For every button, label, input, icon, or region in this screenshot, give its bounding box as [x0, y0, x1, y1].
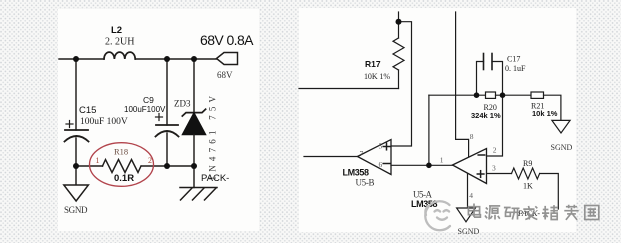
U5-B plus sign pin5 [383, 143, 390, 150]
wire: U5-B pin6 to U5-A output [391, 164, 453, 166]
svg-text:C9: C9 [143, 95, 154, 105]
watermark char 电 [468, 204, 480, 218]
svg-text:68V: 68V [217, 70, 233, 80]
junction node: bottom net at C9 [164, 163, 170, 169]
svg-text:1N4761 75V: 1N4761 75V [208, 92, 218, 181]
right schematic white panel [299, 8, 576, 232]
svg-text:4: 4 [469, 191, 473, 200]
ground SGND (right top) [552, 120, 570, 133]
watermark char 英 [564, 205, 578, 220]
resistor R18 [103, 160, 142, 173]
wire: C15 to ground node [75, 138, 77, 185]
wire: ZD3 branch vertical [193, 59, 195, 113]
junction node: rail at ZD3 [191, 56, 197, 62]
watermark char 研 [504, 208, 520, 220]
ground SGND (below U5-A) [457, 208, 476, 222]
svg-text:C15: C15 [79, 105, 96, 116]
svg-text:2: 2 [148, 156, 152, 165]
ground SGND (left) [64, 185, 89, 201]
U5-A plus sign pin3 [477, 171, 484, 178]
wire: U5-A pin4 to ground [467, 174, 469, 208]
svg-text:R18: R18 [114, 147, 128, 157]
svg-text:SGND: SGND [458, 227, 480, 236]
svg-text:2: 2 [493, 146, 497, 155]
U5-A minus sign pin2 [478, 154, 485, 156]
svg-text:0. 1uF: 0. 1uF [505, 64, 526, 73]
op-amp U5-B [358, 140, 392, 175]
wire: bottom net right segment [142, 165, 195, 167]
wire: ZD3 to PACK- ground [193, 135, 195, 188]
svg-text:C17: C17 [507, 55, 520, 64]
resistor R17 [398, 22, 400, 38]
junction node: rail at C15 [73, 56, 79, 62]
svg-text:ZD3: ZD3 [174, 99, 191, 109]
wire: C9 to bottom net [166, 133, 168, 166]
svg-text:R9: R9 [523, 159, 532, 168]
wire: R20 net horizontal [429, 94, 486, 96]
svg-text:1: 1 [96, 156, 100, 165]
left schematic white panel [58, 9, 259, 231]
svg-text:SGND: SGND [551, 143, 573, 152]
svg-text:SGND: SGND [64, 205, 88, 215]
wire: U5-B output [304, 156, 358, 158]
inductor L2 [104, 52, 135, 59]
zener diode ZD3 [182, 109, 205, 116]
chassis ground PACK- [180, 188, 217, 201]
watermark char 精 [542, 205, 558, 219]
U5-B minus sign pin6 [383, 163, 390, 165]
svg-text:1K: 1K [523, 182, 533, 191]
wire: U5-A pin3 to R9 [487, 173, 512, 175]
svg-text:PACK-: PACK- [201, 173, 229, 184]
junction node: C17 right [500, 92, 506, 98]
svg-text:5: 5 [379, 142, 383, 151]
wire: R21 to SGND [544, 95, 561, 120]
svg-text:10k 1%: 10k 1% [532, 109, 558, 118]
resistor R9 [512, 168, 540, 179]
svg-text:1: 1 [440, 155, 444, 164]
resistor R20 (box) [486, 92, 496, 98]
svg-text:U5-A: U5-A [413, 189, 433, 199]
wire: node to pin5 riser [391, 22, 412, 146]
svg-text:100uF100V: 100uF100V [124, 105, 166, 114]
watermark logo (face in circle) [425, 201, 450, 230]
svg-text:7: 7 [360, 149, 364, 158]
junction node: bottom net at ZD3 [191, 163, 197, 169]
watermark text 电源研发精英圈 (hand-drawn strokes) [468, 204, 598, 220]
junction node: feedback at U5-A output [426, 163, 432, 169]
svg-text:100uF 100V: 100uF 100V [80, 117, 128, 127]
watermark char 圈 [585, 206, 599, 220]
wire: U5-A pin2 riser [487, 95, 503, 156]
C9 plus sign [156, 114, 163, 121]
svg-text:LM358: LM358 [411, 199, 438, 209]
capacitor C9 [156, 125, 179, 137]
svg-text:8: 8 [470, 132, 474, 141]
svg-text:LM358: LM358 [343, 167, 370, 177]
junction node: bottom net at C15 [73, 163, 79, 169]
connector tag 68V [217, 53, 238, 65]
watermark char 发 [523, 206, 537, 220]
wire: stub above R17 node [398, 12, 400, 22]
wire: bottom net left segment [76, 165, 103, 167]
C15 plus sign [66, 121, 73, 128]
svg-text:3: 3 [492, 164, 496, 173]
svg-text:0.1R: 0.1R [114, 173, 134, 184]
svg-text:10K 1%: 10K 1% [364, 72, 390, 81]
wire: R9 to PACK- drop [540, 174, 559, 210]
svg-text:U5-B: U5-B [356, 177, 375, 187]
wire: 68V top rail left segment [59, 58, 104, 60]
junction node: C17 left [474, 92, 480, 98]
junction node: rail at C9 [164, 56, 170, 62]
svg-text:L2: L2 [111, 25, 122, 36]
junction node: R17 top [396, 19, 402, 25]
wire: 68V top rail right segment [135, 58, 217, 60]
wire: R17 bottom to left edge [299, 88, 399, 90]
capacitor C15 [65, 130, 89, 142]
resistor R21 (box) [531, 92, 544, 98]
svg-text:68V 0.8A: 68V 0.8A [200, 32, 254, 48]
capacitor C17 [477, 62, 484, 96]
svg-text:2. 2UH: 2. 2UH [105, 37, 134, 48]
wire: long vertical to U5-A pin8 [456, 12, 469, 159]
wire: feedback vertical [428, 95, 430, 165]
highlight ellipse around R18 [90, 143, 154, 187]
svg-text:324k 1%: 324k 1% [471, 111, 501, 120]
op-amp U5-A [453, 149, 487, 184]
svg-text:R17: R17 [365, 59, 381, 69]
watermark char 源 [485, 206, 500, 220]
wire: C9 branch vertical [166, 59, 168, 125]
wire: C15 branch vertical [75, 59, 77, 130]
svg-text:6: 6 [379, 160, 383, 169]
